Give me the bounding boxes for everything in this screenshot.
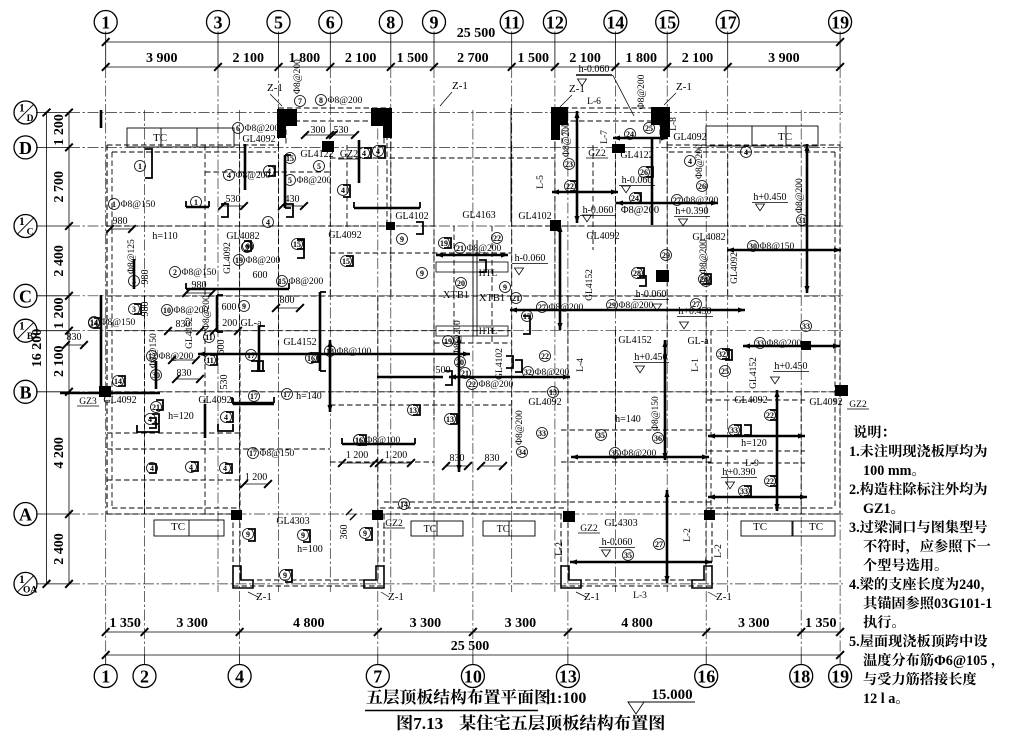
- column stub: [660, 125, 670, 137]
- circled number 33: [801, 321, 812, 332]
- circled number 25: [644, 123, 655, 134]
- svg-text:Φ8@150: Φ8@150: [651, 396, 661, 431]
- slab bar vertical x=807: [806, 144, 809, 293]
- column col at A grid4: [231, 510, 242, 520]
- svg-text:33: 33: [538, 429, 546, 438]
- circled number 33: [739, 486, 750, 497]
- slab bar horizontal y=393: [60, 392, 100, 395]
- svg-text:A: A: [19, 505, 32, 525]
- svg-text:15.000: 15.000: [651, 687, 692, 703]
- slab bar horizontal y=393: [107, 392, 160, 395]
- svg-text:22: 22: [566, 182, 574, 191]
- captions: [366, 689, 382, 703]
- svg-text:h-0.060: h-0.060: [583, 205, 614, 216]
- grid bubble 4 bottom: [228, 665, 251, 688]
- circled number 22: [492, 233, 503, 244]
- svg-text:h-0.060: h-0.060: [636, 289, 667, 300]
- notes text right side: [854, 425, 867, 438]
- column col at A grid16: [704, 510, 715, 520]
- svg-text:Φ8@125: Φ8@125: [127, 239, 137, 274]
- svg-text:4: 4: [148, 415, 152, 424]
- circled number 9: [397, 234, 408, 245]
- svg-text:Φ8@200: Φ8@200: [515, 410, 525, 445]
- svg-text:500: 500: [436, 365, 451, 376]
- bar callout 22 Φ8@200: [467, 379, 478, 390]
- slab bar vertical x=667: [666, 490, 669, 583]
- circled number 33: [537, 428, 548, 439]
- svg-text:Φ8@200: Φ8@200: [246, 256, 281, 266]
- grid bubble 1/OA left: [14, 572, 37, 595]
- circled number 17: [522, 311, 533, 322]
- svg-text:22: 22: [766, 477, 774, 486]
- circled number 16: [354, 435, 365, 446]
- svg-text:980: 980: [192, 280, 207, 291]
- svg-text:Φ8@150: Φ8@150: [149, 333, 159, 368]
- svg-text:1 800: 1 800: [626, 51, 658, 66]
- svg-text:33: 33: [756, 339, 764, 348]
- svg-text:1 350: 1 350: [109, 616, 141, 631]
- svg-text:Φ8@200: Φ8@200: [695, 144, 705, 179]
- circled number 19: [439, 238, 450, 249]
- slab bar horizontal y=207: [186, 206, 209, 209]
- svg-text:GZ2: GZ2: [849, 400, 867, 410]
- svg-text:GL4102: GL4102: [518, 211, 551, 222]
- svg-text:GZ2: GZ2: [580, 524, 598, 534]
- svg-text:300: 300: [311, 125, 326, 136]
- svg-text:800: 800: [280, 295, 295, 306]
- circled number 27: [654, 539, 665, 550]
- svg-text:Φ8@200: Φ8@200: [289, 277, 324, 287]
- circled number 24: [630, 193, 641, 204]
- slab bar horizontal y=289: [186, 288, 289, 291]
- circled number 9: [417, 268, 428, 279]
- svg-text:19: 19: [444, 337, 452, 346]
- svg-text:27: 27: [692, 300, 700, 309]
- slab bar vertical x=665: [664, 340, 667, 460]
- svg-text:1: 1: [112, 200, 116, 209]
- svg-text:Φ8@200: Φ8@200: [767, 339, 802, 349]
- svg-text:9: 9: [420, 269, 424, 278]
- h-0.060 leader top: [576, 75, 613, 77]
- svg-text:4: 4: [362, 149, 366, 158]
- svg-text:21: 21: [456, 244, 464, 253]
- svg-text:600: 600: [253, 270, 268, 281]
- svg-text:14: 14: [400, 500, 408, 509]
- svg-text:35: 35: [624, 551, 632, 560]
- svg-text:GL4122: GL4122: [620, 150, 653, 161]
- grid bubble 3 top: [207, 11, 230, 34]
- column col centre: [550, 220, 561, 231]
- svg-text:L-1: L-1: [691, 358, 701, 372]
- svg-text:430: 430: [285, 194, 300, 205]
- svg-text:32: 32: [718, 350, 726, 359]
- svg-text:14: 14: [606, 13, 624, 33]
- circled number 14: [113, 376, 124, 387]
- svg-text:GZ2: GZ2: [385, 519, 403, 529]
- svg-text:Φ8@200: Φ8@200: [479, 380, 514, 390]
- circled number 9: [298, 530, 309, 541]
- svg-text:17: 17: [249, 449, 257, 458]
- svg-text:D: D: [27, 114, 34, 124]
- svg-text:GL4092: GL4092: [586, 231, 619, 242]
- circled number 35: [596, 430, 607, 441]
- svg-text:25 500: 25 500: [451, 639, 490, 654]
- svg-text:28: 28: [633, 269, 641, 278]
- svg-text:21: 21: [512, 294, 520, 303]
- bar callout 6 Φ8@200: [233, 123, 244, 134]
- svg-text:25: 25: [645, 124, 653, 133]
- svg-text:GL4092: GL4092: [103, 395, 136, 406]
- horizontal grid axis lines: [36, 112, 69, 114]
- circled number 27: [691, 299, 702, 310]
- svg-text:h-0.060: h-0.060: [579, 64, 610, 75]
- svg-text:Φ8@200: Φ8@200: [622, 449, 657, 459]
- svg-text:Φ8@150: Φ8@150: [760, 242, 795, 252]
- svg-text:L-4: L-4: [576, 358, 586, 372]
- circled number 25: [720, 366, 731, 377]
- svg-text:GL4092: GL4092: [734, 395, 767, 406]
- bar callout 32 Φ8@200: [523, 367, 534, 378]
- circled number 14: [89, 318, 100, 329]
- svg-text:1 350: 1 350: [805, 616, 837, 631]
- circled number 22: [540, 351, 551, 362]
- circled number 5: [314, 161, 325, 172]
- svg-text:D: D: [19, 138, 32, 158]
- grid bubble B left: [14, 380, 37, 403]
- bar callout 16 Φ8@100: [354, 435, 365, 446]
- svg-text:Φ8@200: Φ8@200: [297, 176, 332, 186]
- svg-text:530: 530: [334, 125, 349, 136]
- svg-text:TC: TC: [424, 524, 437, 535]
- svg-text:GL4303: GL4303: [276, 516, 309, 527]
- svg-text:GL4102: GL4102: [495, 348, 505, 380]
- svg-text:16: 16: [355, 436, 363, 445]
- svg-text:GL4163: GL4163: [462, 210, 495, 221]
- svg-text:Φ8@200: Φ8@200: [795, 178, 805, 213]
- svg-text:16 200: 16 200: [30, 329, 45, 368]
- svg-text:35: 35: [597, 431, 605, 440]
- bar callout 7 Φ8@200: [295, 96, 306, 107]
- svg-text:16: 16: [307, 354, 315, 363]
- svg-text:14: 14: [90, 319, 98, 328]
- interior partition walls horizontal: [107, 225, 434, 227]
- circled number 4: [338, 185, 349, 196]
- staircase XTB1: [472, 240, 474, 336]
- bar callout 1 Φ8@150: [109, 199, 120, 210]
- slab bar horizontal y=192: [552, 191, 618, 194]
- bar callout 35 Φ8@200: [610, 448, 621, 459]
- circled number 22: [765, 410, 776, 421]
- bottom segment dimensions: [106, 631, 840, 633]
- column Z-1 corner 3: [561, 566, 581, 588]
- svg-text:L-3: L-3: [633, 591, 647, 601]
- column Z-1 corner 2: [364, 566, 384, 588]
- bar callout 34 Φ8@200: [517, 447, 528, 458]
- svg-text:L-6: L-6: [587, 97, 601, 107]
- grid bubble 1/C left: [14, 215, 37, 238]
- svg-text:C: C: [27, 228, 34, 238]
- svg-text:XTB1: XTB1: [479, 293, 505, 304]
- column stub: [383, 126, 392, 138]
- svg-text:4: 4: [227, 171, 231, 180]
- svg-text:Φ8@200: Φ8@200: [684, 196, 719, 206]
- svg-text:2.: 2.: [849, 482, 860, 498]
- bar callout 29 Φ8@200: [607, 300, 618, 311]
- circled number 14: [399, 499, 410, 510]
- slab bar vertical x=560: [559, 225, 562, 330]
- grid bubble 1/B left: [14, 319, 37, 342]
- svg-text:GL4152: GL4152: [618, 335, 651, 346]
- column Z-1 col top-left-a: [277, 109, 297, 126]
- svg-text:20: 20: [457, 279, 465, 288]
- svg-text:2 700: 2 700: [457, 51, 489, 66]
- circled number 21: [151, 402, 162, 413]
- svg-text:19: 19: [235, 256, 243, 265]
- svg-text:2 100: 2 100: [682, 51, 714, 66]
- svg-text:Φ8@200: Φ8@200: [637, 74, 647, 109]
- svg-text:03G101-1: 03G101-1: [934, 596, 992, 612]
- grid bubble 1 top: [94, 11, 117, 34]
- bar callout 36 Φ8@150: [653, 433, 664, 444]
- svg-text:1 200: 1 200: [52, 114, 67, 146]
- slab bar vertical x=320: [319, 292, 322, 371]
- svg-text:1: 1: [138, 162, 142, 171]
- svg-text:h+0.450: h+0.450: [634, 352, 667, 363]
- svg-text:3 300: 3 300: [410, 616, 442, 631]
- svg-text:h-0.060: h-0.060: [602, 537, 633, 548]
- svg-text:GL4092: GL4092: [528, 397, 561, 408]
- svg-text:240: 240: [959, 577, 980, 593]
- svg-text:12: 12: [546, 13, 564, 33]
- slab bar vertical x=459: [458, 336, 461, 472]
- bar callout 31 Φ8@200: [797, 215, 808, 226]
- svg-text:9: 9: [400, 235, 404, 244]
- svg-text:1 500: 1 500: [397, 51, 429, 66]
- top overall dimension 25 500: [106, 41, 840, 43]
- slab bar vertical x=259: [258, 326, 261, 371]
- svg-text:30: 30: [152, 371, 160, 380]
- circled number 4: [221, 412, 232, 423]
- slab bar vertical x=101: [100, 295, 103, 396]
- svg-text:4: 4: [150, 464, 154, 473]
- svg-text:4: 4: [267, 167, 271, 176]
- circled number 4: [359, 148, 370, 159]
- circled number 13: [408, 405, 419, 416]
- svg-text:GZ3: GZ3: [79, 397, 97, 407]
- bar callout 5 Φ8@200: [285, 175, 296, 186]
- circled number 4: [741, 147, 752, 158]
- svg-text:7: 7: [298, 97, 302, 106]
- svg-text:3 900: 3 900: [146, 51, 178, 66]
- svg-text:GL4152: GL4152: [185, 317, 195, 349]
- svg-text:Φ8@200: Φ8@200: [549, 303, 584, 313]
- svg-text:GL4152: GL4152: [283, 337, 316, 348]
- slab bar horizontal y=377: [377, 376, 443, 379]
- svg-text:Φ8@200: Φ8@200: [621, 205, 659, 216]
- svg-text:1 200: 1 200: [245, 472, 268, 483]
- svg-text:Z-1: Z-1: [716, 591, 732, 603]
- bar callout 18 Φ8@100: [325, 346, 336, 357]
- svg-text:Φ8@150: Φ8@150: [260, 449, 295, 459]
- svg-text:3: 3: [132, 305, 136, 314]
- svg-text:Φ8@200: Φ8@200: [328, 96, 363, 106]
- bar callout 20 Φ8@200: [455, 357, 466, 368]
- bar callout 8 Φ8@200: [316, 95, 327, 106]
- circled number 16: [306, 353, 317, 364]
- circled number 17: [246, 350, 257, 361]
- top segment dimensions: [106, 66, 840, 68]
- svg-text:600: 600: [222, 302, 237, 313]
- svg-text:4: 4: [223, 464, 227, 473]
- svg-text:32: 32: [524, 368, 532, 377]
- grid bubble 1 bottom: [94, 665, 117, 688]
- slab bar horizontal y=250: [727, 249, 841, 252]
- column Z-1 corner 1: [233, 566, 253, 588]
- circled number 17: [249, 391, 260, 402]
- elevation level triangles: [622, 186, 631, 193]
- column col at A grid7: [372, 510, 383, 520]
- svg-text:GL4092: GL4092: [809, 397, 842, 408]
- svg-text:17: 17: [250, 392, 258, 401]
- svg-text:Φ8@200: Φ8@200: [236, 171, 271, 181]
- column stub: [277, 126, 286, 138]
- svg-text:3 900: 3 900: [768, 51, 800, 66]
- svg-text:Φ8@200: Φ8@200: [202, 295, 212, 330]
- svg-text:Φ8@200: Φ8@200: [245, 124, 280, 134]
- svg-text:GL4092: GL4092: [730, 252, 740, 284]
- bar callout 10 Φ8@200: [162, 305, 173, 316]
- svg-text:GL4082: GL4082: [692, 232, 725, 243]
- svg-text:3: 3: [214, 13, 223, 33]
- svg-text:3 300: 3 300: [176, 616, 208, 631]
- svg-text:5: 5: [288, 176, 292, 185]
- circled number 4: [147, 463, 158, 474]
- slab bar vertical x=330: [329, 340, 332, 412]
- grid bubble 16 bottom: [695, 665, 718, 688]
- svg-text:1 200: 1 200: [385, 450, 408, 461]
- grid bubble 12 top: [543, 11, 566, 34]
- svg-text:1: 1: [19, 216, 25, 228]
- slab bar horizontal y=404: [233, 403, 274, 406]
- svg-text:Φ8@150: Φ8@150: [121, 200, 156, 210]
- bar callout 4 Φ8@200: [224, 170, 235, 181]
- svg-text:980: 980: [113, 216, 128, 227]
- svg-text:h-0.060: h-0.060: [515, 253, 546, 264]
- svg-text:9: 9: [301, 531, 305, 540]
- svg-text:1: 1: [194, 198, 198, 207]
- svg-text:14: 14: [114, 377, 122, 386]
- svg-text:C: C: [19, 286, 32, 306]
- svg-text:17: 17: [283, 390, 291, 399]
- bar callout 30 Φ8@150: [151, 370, 162, 381]
- svg-text:5: 5: [317, 162, 321, 171]
- circled number 4: [264, 166, 275, 177]
- slab bar vertical x=134: [133, 259, 136, 289]
- svg-text:5.: 5.: [849, 634, 860, 650]
- svg-text:Z-1: Z-1: [452, 80, 468, 92]
- circled number 9: [243, 529, 254, 540]
- svg-text:HTL: HTL: [479, 269, 498, 279]
- svg-text:GL4152: GL4152: [749, 357, 759, 389]
- svg-text:GL4122: GL4122: [300, 149, 333, 160]
- svg-text:19: 19: [831, 13, 849, 33]
- svg-text:2 400: 2 400: [52, 533, 67, 565]
- svg-text:11: 11: [503, 13, 520, 33]
- svg-text:1: 1: [101, 13, 110, 33]
- svg-text:9: 9: [246, 530, 250, 539]
- svg-text:2 400: 2 400: [52, 245, 67, 277]
- slab bar horizontal y=403: [232, 402, 274, 405]
- svg-text:33: 33: [730, 426, 738, 435]
- svg-text:GL4092: GL4092: [242, 134, 275, 145]
- svg-text:27: 27: [673, 196, 681, 205]
- svg-text:L-8: L-8: [669, 117, 679, 131]
- svg-text:33: 33: [740, 487, 748, 496]
- svg-text:GL4303: GL4303: [604, 518, 637, 529]
- bar callout 2 Φ8@150: [170, 267, 181, 278]
- grid bubble 7 bottom: [366, 665, 389, 688]
- svg-text:20: 20: [456, 358, 464, 367]
- svg-text:980: 980: [140, 270, 151, 285]
- slab bar horizontal y=208: [354, 207, 420, 210]
- circled number 9: [243, 241, 254, 252]
- left overall dimension 16 200: [46, 113, 48, 584]
- svg-text:17: 17: [719, 13, 737, 33]
- bar callout 27 Φ8@200: [537, 302, 548, 313]
- column Z-1 col top-left-b: [371, 108, 392, 126]
- svg-text:TC: TC: [778, 131, 792, 143]
- bottom overall dimension 25 500: [106, 654, 840, 656]
- svg-text:HTL: HTL: [479, 327, 498, 337]
- svg-text:2: 2: [140, 667, 149, 687]
- svg-text:Z-1: Z-1: [584, 591, 600, 603]
- slab bar vertical x=217: [216, 295, 219, 332]
- svg-text:Φ8@200: Φ8@200: [562, 122, 572, 157]
- grid bubble 1/D left: [14, 101, 37, 124]
- slab bar vertical x=205: [204, 404, 207, 438]
- svg-text:Φ8@150: Φ8@150: [182, 268, 217, 278]
- svg-text:h=100: h=100: [297, 544, 323, 555]
- svg-text:h=110: h=110: [152, 231, 177, 242]
- bar callout 14 Φ8@150: [89, 317, 100, 328]
- circled number 9: [280, 570, 291, 581]
- svg-text:13: 13: [446, 415, 454, 424]
- rebar hook marks: [145, 149, 152, 178]
- svg-text:980: 980: [140, 302, 151, 317]
- bar callout 3 Φ8@125: [129, 276, 140, 287]
- svg-text:1.: 1.: [849, 444, 860, 460]
- svg-text:L-2: L-2: [714, 544, 724, 558]
- svg-text:29: 29: [662, 251, 670, 260]
- svg-text:Φ8@200: Φ8@200: [699, 239, 709, 274]
- svg-text:1: 1: [101, 667, 110, 687]
- svg-text:2 100: 2 100: [345, 51, 377, 66]
- circled number 28: [699, 274, 710, 285]
- svg-text:33: 33: [802, 322, 810, 331]
- svg-text:Φ8@100: Φ8@100: [337, 347, 372, 357]
- grid bubble 17 top: [716, 11, 739, 34]
- circled number 4: [263, 217, 274, 228]
- circled number 17: [282, 389, 293, 400]
- svg-text:100 mm: 100 mm: [863, 463, 912, 479]
- circled number 21: [511, 293, 522, 304]
- grid bubble 6 top: [319, 11, 342, 34]
- svg-text:Φ8@100: Φ8@100: [366, 436, 401, 446]
- svg-text:Φ8@200: Φ8@200: [619, 301, 654, 311]
- svg-text:2 100: 2 100: [232, 51, 264, 66]
- svg-text:XTB1: XTB1: [443, 290, 469, 301]
- svg-text:27: 27: [538, 303, 546, 312]
